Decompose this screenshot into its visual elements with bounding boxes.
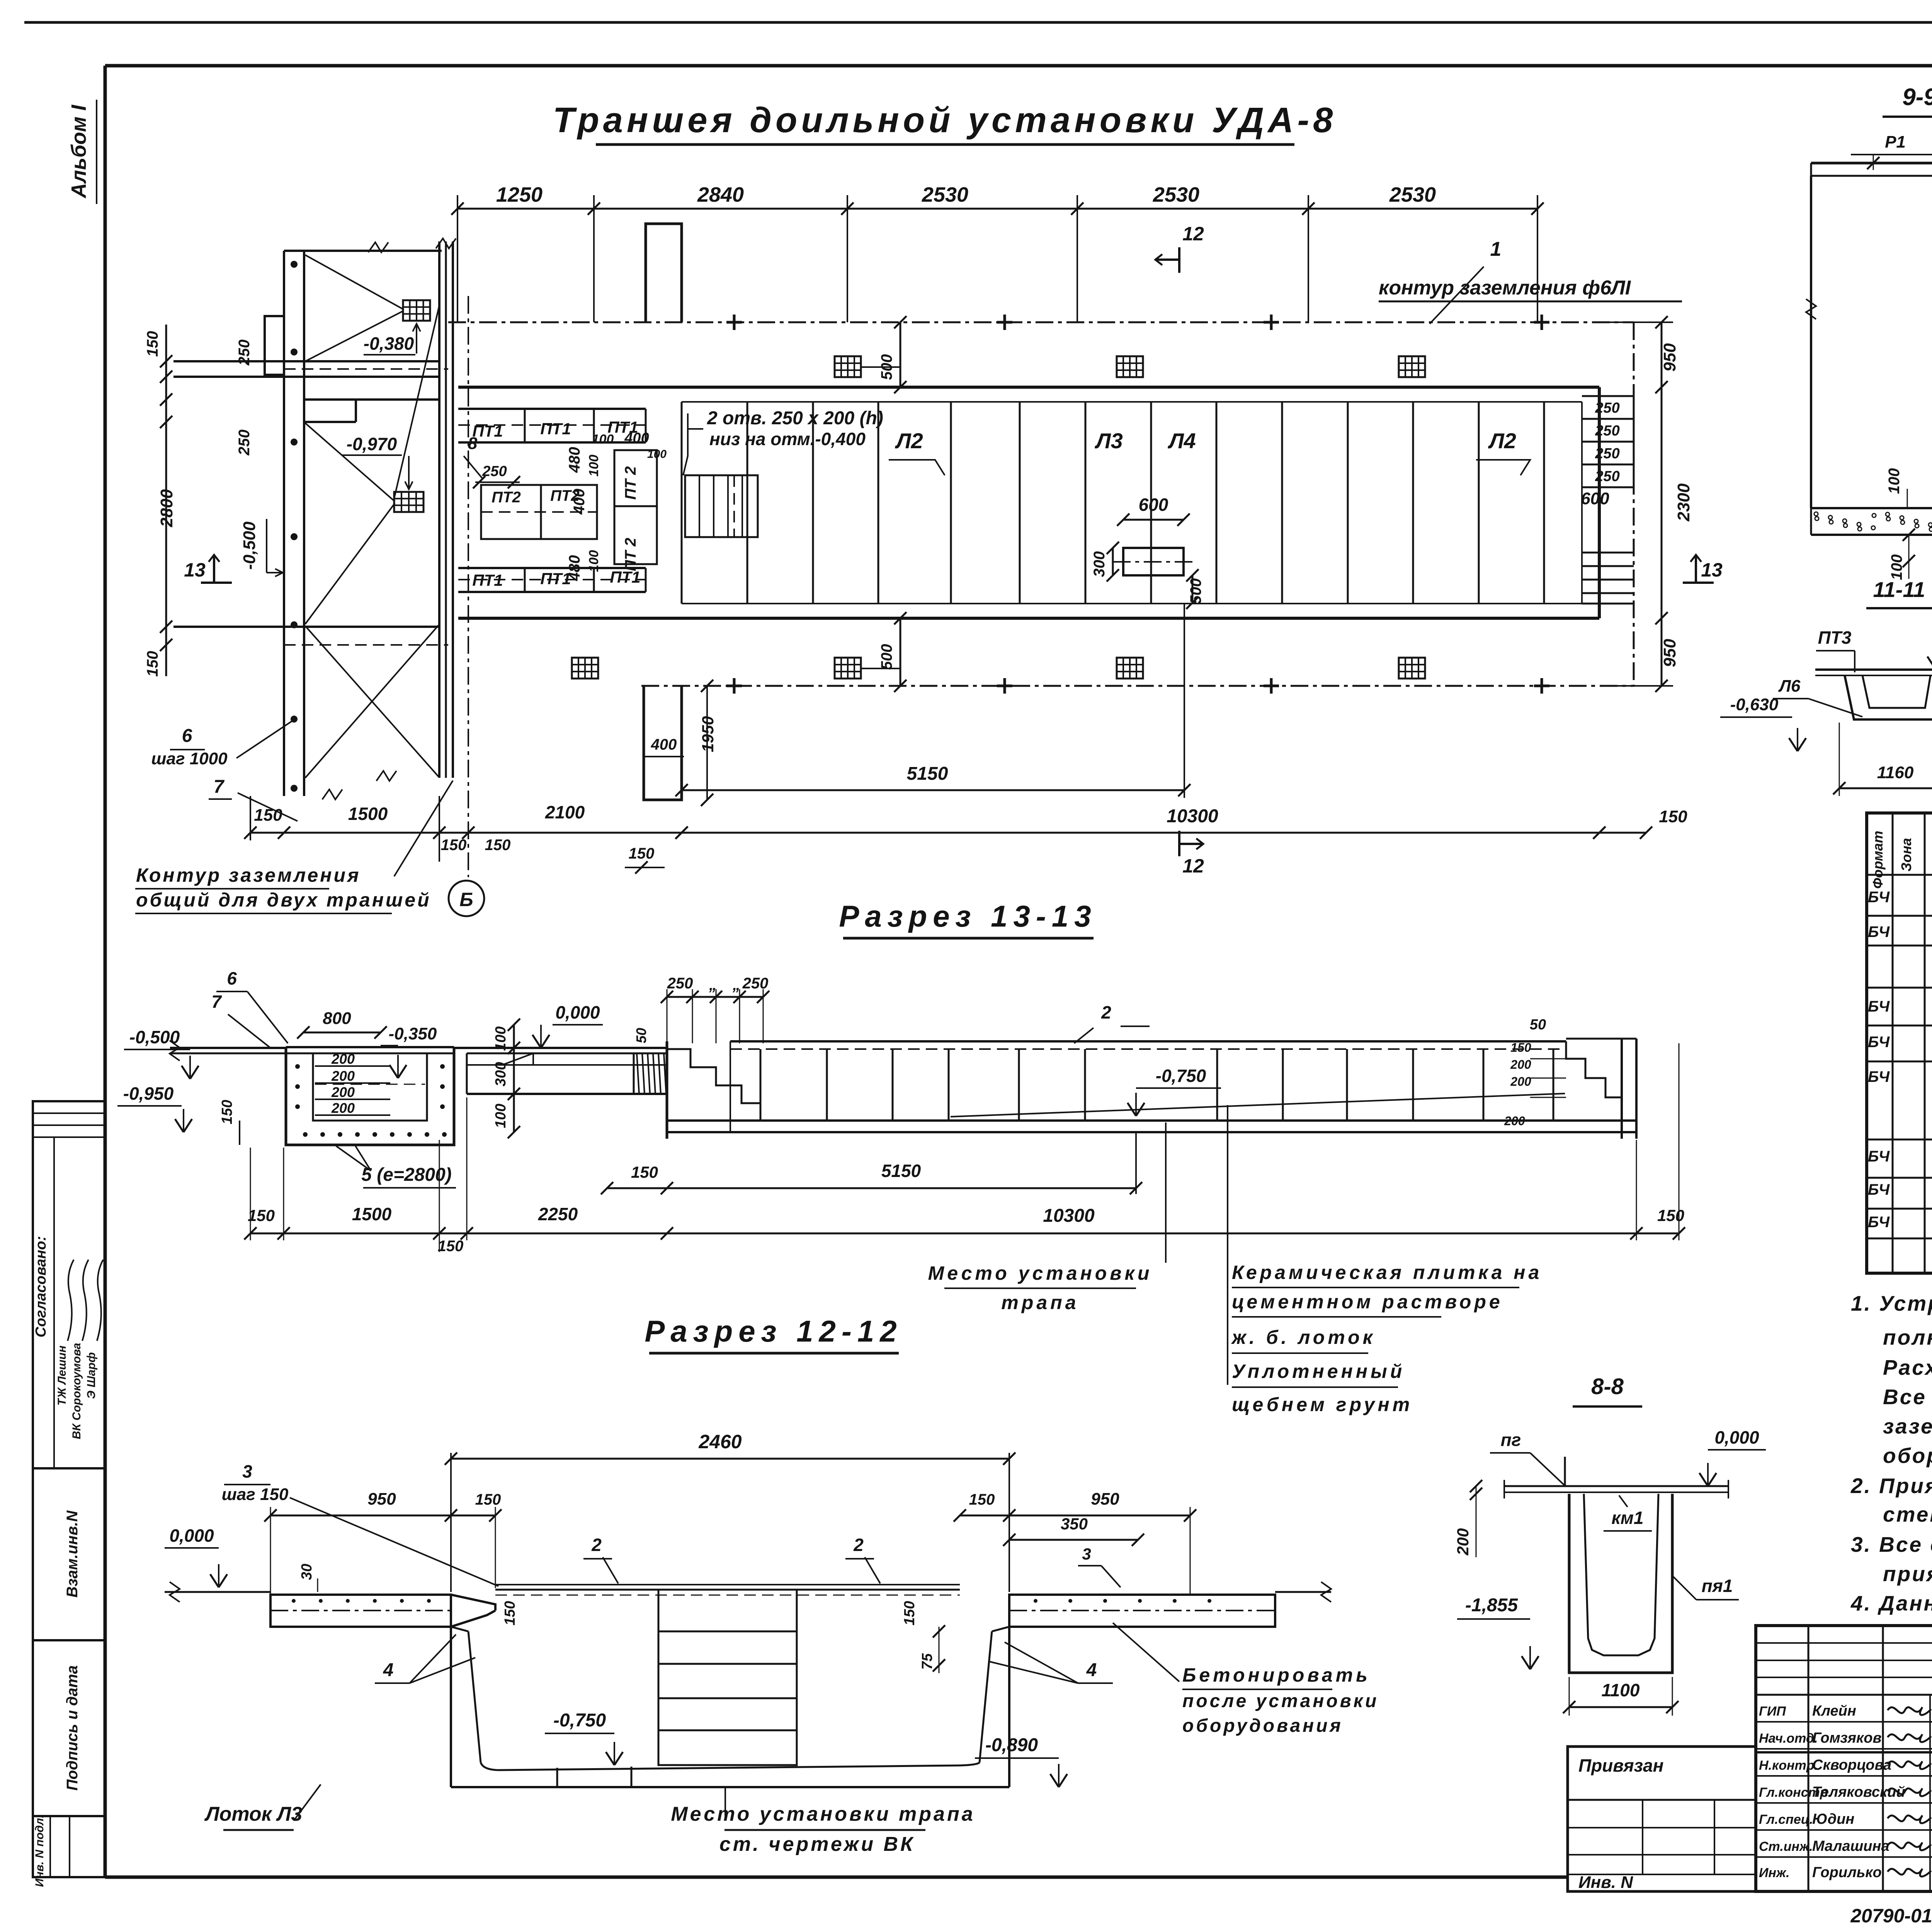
svg-text:400: 400 bbox=[624, 430, 649, 446]
svg-text:1. Устройство выравнивания эле: 1. Устройство выравнивания электрических… bbox=[1851, 1291, 1932, 1315]
svg-text:300: 300 bbox=[493, 1062, 509, 1086]
svg-text:БЧ: БЧ bbox=[1868, 1148, 1890, 1165]
svg-text:1500: 1500 bbox=[352, 1204, 392, 1224]
svg-text:75: 75 bbox=[919, 1653, 935, 1670]
outer sheet border top bbox=[24, 21, 1932, 24]
svg-text:4: 4 bbox=[383, 1660, 394, 1680]
second wall lines bbox=[438, 241, 440, 778]
spec table grid bbox=[1867, 813, 1932, 1273]
9-9 top slab bbox=[1811, 162, 1932, 165]
drawing frame bbox=[105, 64, 1932, 68]
svg-text:Формат: Формат bbox=[1870, 831, 1886, 889]
12-12 sump notch bbox=[556, 1768, 558, 1787]
svg-text:Уплотненный: Уплотненный bbox=[1232, 1361, 1405, 1382]
plan grounding contour (dash-dot) bbox=[448, 321, 1634, 323]
svg-text:150: 150 bbox=[631, 1163, 658, 1181]
svg-text:5150: 5150 bbox=[907, 764, 948, 784]
svg-text:-0,970: -0,970 bbox=[347, 434, 397, 454]
svg-text:2530: 2530 bbox=[1389, 183, 1436, 206]
wall grounding pad -0,380 bbox=[403, 300, 430, 321]
svg-text:пя1: пя1 bbox=[1702, 1576, 1733, 1596]
left dims column bbox=[165, 325, 167, 676]
ceramic tile note bbox=[1227, 1105, 1228, 1385]
svg-text:10300: 10300 bbox=[1167, 806, 1218, 827]
svg-text:-0,750: -0,750 bbox=[553, 1710, 606, 1731]
svg-text:3. Все стенки траншеи доильной: 3. Все стенки траншеи доильной установки… bbox=[1851, 1532, 1932, 1556]
svg-text:щебнем грунт: щебнем грунт bbox=[1232, 1394, 1413, 1415]
svg-text:2250: 2250 bbox=[538, 1204, 578, 1224]
13-13 right end steps bbox=[1566, 1041, 1622, 1097]
svg-text:пг: пг bbox=[1501, 1430, 1521, 1450]
svg-text:Э Шарф: Э Шарф bbox=[85, 1352, 98, 1399]
svg-text:трапа: трапа bbox=[1001, 1292, 1079, 1313]
svg-text:БЧ: БЧ bbox=[1868, 1181, 1890, 1198]
svg-text:Горилько: Горилько bbox=[1812, 1864, 1882, 1881]
svg-text:150: 150 bbox=[969, 1491, 995, 1508]
svg-text:2530: 2530 bbox=[922, 183, 968, 206]
svg-text:стен на фундаментные балки.: стен на фундаментные балки. bbox=[1883, 1502, 1932, 1526]
svg-text:Взам.инв.N: Взам.инв.N bbox=[64, 1510, 81, 1597]
12-12 left slab bbox=[270, 1595, 451, 1627]
svg-text:общий для двух траншей: общий для двух траншей bbox=[136, 889, 431, 911]
svg-text:ПТ1: ПТ1 bbox=[472, 571, 503, 589]
plan right lower stairs bbox=[1582, 552, 1634, 554]
8-8 dim 1100 bbox=[1569, 1706, 1672, 1708]
svg-text:250: 250 bbox=[1595, 400, 1619, 416]
svg-text:-0,380: -0,380 bbox=[364, 333, 414, 354]
13-13 channel trough bbox=[286, 1047, 454, 1145]
svg-text:1100: 1100 bbox=[1602, 1680, 1640, 1700]
svg-text:250: 250 bbox=[742, 975, 769, 992]
12-12 central equipment block bbox=[658, 1590, 797, 1765]
svg-text:950: 950 bbox=[1660, 343, 1679, 372]
svg-text:800: 800 bbox=[323, 1009, 351, 1028]
svg-text:200: 200 bbox=[331, 1051, 355, 1067]
svg-text:400: 400 bbox=[571, 489, 588, 515]
svg-text:Контур заземления: Контур заземления bbox=[136, 864, 361, 886]
svg-text:Все металлические конструкции: Все металлические конструкции установки … bbox=[1883, 1385, 1932, 1409]
svg-text:6: 6 bbox=[227, 968, 237, 988]
sidebar Взам.инв.N box bbox=[33, 1468, 105, 1640]
svg-text:200: 200 bbox=[331, 1084, 355, 1100]
svg-text:ПТ1: ПТ1 bbox=[540, 420, 571, 438]
svg-text:400: 400 bbox=[651, 736, 677, 753]
svg-text:2. Приямок ПЯЗ применять при в: 2. Приямок ПЯЗ применять при варианте оп… bbox=[1850, 1474, 1932, 1498]
svg-text:100: 100 bbox=[647, 448, 667, 461]
svg-text:низ на отм.-0,400: низ на отм.-0,400 bbox=[709, 429, 866, 449]
plan slab joint lines bbox=[681, 402, 683, 604]
svg-text:950: 950 bbox=[1660, 639, 1679, 667]
svg-text:2530: 2530 bbox=[1153, 183, 1199, 206]
svg-text:100: 100 bbox=[1886, 468, 1903, 494]
svg-text:250: 250 bbox=[236, 340, 253, 366]
title block привязан box bbox=[1568, 1747, 1756, 1891]
svg-text:оборудования.: оборудования. bbox=[1883, 1444, 1932, 1468]
svg-text:Согласовано:: Согласовано: bbox=[33, 1236, 49, 1337]
svg-text:Теляковский: Теляковский bbox=[1812, 1784, 1905, 1800]
svg-text:контур заземления ф6ЛI: контур заземления ф6ЛI bbox=[1379, 277, 1631, 299]
8-8 pit ПЯ1 bbox=[1569, 1494, 1672, 1673]
wall axis Б (dash-dot) and circle bbox=[468, 296, 469, 877]
12-12 dim 2460 bbox=[451, 1458, 1009, 1460]
svg-text:8-8: 8-8 bbox=[1591, 1374, 1624, 1399]
12-12 dims right bbox=[960, 1515, 1009, 1517]
12-12 pit body bbox=[450, 1627, 452, 1787]
PT2 slabs block bbox=[481, 485, 597, 539]
svg-text:Скворцова: Скворцова bbox=[1812, 1757, 1891, 1773]
svg-text:100: 100 bbox=[493, 1104, 509, 1128]
svg-text:6: 6 bbox=[182, 726, 192, 746]
svg-text:Лоток Л3: Лоток Л3 bbox=[204, 1803, 302, 1825]
svg-text:500: 500 bbox=[878, 644, 895, 670]
svg-text:Инв. N: Инв. N bbox=[1578, 1873, 1633, 1892]
svg-text:5150: 5150 bbox=[881, 1161, 921, 1181]
sidebar approval block bbox=[33, 1101, 105, 1468]
13-13 dims 100/300/100 bbox=[513, 1025, 515, 1132]
svg-text:150: 150 bbox=[248, 1206, 275, 1225]
svg-text:Инж.: Инж. bbox=[1759, 1866, 1789, 1880]
svg-text:600: 600 bbox=[1139, 495, 1168, 515]
svg-text:30: 30 bbox=[299, 1564, 315, 1580]
svg-text:350: 350 bbox=[1061, 1515, 1088, 1533]
svg-text:Траншея доильной установки: Траншея доильной установки УДА-8 bbox=[553, 100, 1337, 140]
svg-text:км1: км1 bbox=[1612, 1508, 1644, 1528]
svg-text:2: 2 bbox=[591, 1535, 602, 1555]
13-13 floor line left bbox=[170, 1047, 286, 1049]
12-12 floor left bbox=[165, 1591, 270, 1593]
svg-text:-0,950: -0,950 bbox=[123, 1083, 174, 1104]
building wall (left, double line with rebar dots) bbox=[283, 251, 285, 796]
svg-text:БЧ: БЧ bbox=[1868, 998, 1890, 1015]
svg-text:после установки: после установки bbox=[1182, 1691, 1379, 1711]
svg-text:150: 150 bbox=[901, 1601, 918, 1625]
13-13 trench steps left bbox=[667, 1049, 760, 1103]
svg-text:150: 150 bbox=[254, 806, 282, 825]
svg-text:ПТ 2: ПТ 2 bbox=[622, 538, 639, 571]
plan trench outline bbox=[458, 386, 1599, 389]
svg-text:12: 12 bbox=[1182, 855, 1204, 877]
svg-text:Место установки трапа: Место установки трапа bbox=[671, 1803, 975, 1825]
svg-text:ТЖ Лешин: ТЖ Лешин bbox=[56, 1345, 68, 1406]
13-13 dim 5150/150 bbox=[607, 1187, 1136, 1189]
svg-text:ГИП: ГИП bbox=[1759, 1704, 1786, 1719]
svg-text:приямки облицевать керамическо: приямки облицевать керамической плиткой. bbox=[1883, 1562, 1932, 1586]
svg-text:0,000: 0,000 bbox=[1714, 1427, 1759, 1447]
svg-text:13: 13 bbox=[184, 559, 206, 581]
svg-text:150: 150 bbox=[144, 331, 161, 357]
svg-text:Л2: Л2 bbox=[895, 429, 923, 453]
13-13 trench floor band bbox=[730, 1040, 1566, 1043]
svg-text:150: 150 bbox=[475, 1491, 501, 1508]
svg-text:1: 1 bbox=[1490, 238, 1502, 260]
svg-text:1500: 1500 bbox=[348, 804, 388, 824]
svg-text:Инв. N подл.: Инв. N подл. bbox=[33, 1815, 46, 1887]
svg-text:-0,500: -0,500 bbox=[129, 1027, 180, 1047]
svg-text:500: 500 bbox=[1187, 578, 1204, 604]
svg-text:150: 150 bbox=[438, 1238, 464, 1255]
12-12 right slab bbox=[1009, 1595, 1275, 1627]
svg-text:Л4: Л4 bbox=[1167, 429, 1196, 453]
svg-text:-0,890: -0,890 bbox=[985, 1735, 1038, 1755]
pad leader 500 top bbox=[861, 366, 900, 368]
sidebar Инв.N подл box bbox=[33, 1816, 105, 1877]
svg-text:БЧ: БЧ bbox=[1868, 1034, 1890, 1051]
svg-text:Гл.спец.: Гл.спец. bbox=[1759, 1812, 1813, 1827]
svg-text:250: 250 bbox=[482, 463, 507, 480]
svg-text:Клейн: Клейн bbox=[1812, 1703, 1856, 1719]
svg-text:2: 2 bbox=[1101, 1002, 1111, 1022]
svg-text:шаг 1000: шаг 1000 bbox=[151, 749, 228, 768]
13-13 floor joints bbox=[760, 1049, 762, 1121]
svg-text:2840: 2840 bbox=[697, 183, 744, 206]
svg-text:полнять на глубине 30 мм от по: полнять на глубине 30 мм от пола из арма… bbox=[1883, 1325, 1932, 1349]
PT1 slabs bottom strip bbox=[458, 567, 646, 569]
svg-text:11-11: 11-11 bbox=[1873, 577, 1925, 602]
svg-text:Н.контр.: Н.контр. bbox=[1759, 1758, 1818, 1773]
svg-text:Нач.отд.: Нач.отд. bbox=[1759, 1731, 1818, 1746]
svg-text:Юдин: Юдин bbox=[1812, 1811, 1854, 1827]
12-12 pit cover bbox=[495, 1584, 960, 1585]
svg-text:-1,855: -1,855 bbox=[1465, 1595, 1518, 1616]
svg-text:оборудования: оборудования bbox=[1182, 1716, 1343, 1736]
svg-text:Малашина: Малашина bbox=[1812, 1838, 1889, 1854]
svg-text:4: 4 bbox=[1086, 1660, 1097, 1680]
svg-text:50: 50 bbox=[633, 1028, 649, 1043]
svg-text:480: 480 bbox=[566, 555, 583, 582]
svg-text:3: 3 bbox=[1082, 1545, 1091, 1563]
svg-text:0,000: 0,000 bbox=[169, 1526, 214, 1546]
svg-text:150: 150 bbox=[485, 837, 511, 854]
svg-text:ж. б. лоток: ж. б. лоток bbox=[1231, 1327, 1376, 1348]
wall ledges bbox=[265, 316, 284, 375]
svg-text:ст. чертежи ВК: ст. чертежи ВК bbox=[719, 1833, 915, 1855]
svg-text:4. Данный лист смотреть с лист: 4. Данный лист смотреть с листом 11. bbox=[1850, 1591, 1932, 1615]
svg-text:Л6: Л6 bbox=[1778, 677, 1801, 696]
svg-text:Ст.инж.: Ст.инж. bbox=[1759, 1839, 1813, 1854]
svg-text:50: 50 bbox=[1530, 1017, 1546, 1033]
svg-text:100: 100 bbox=[587, 455, 601, 477]
svg-text:150: 150 bbox=[1659, 807, 1687, 826]
svg-text:Место установки: Место установки bbox=[928, 1262, 1153, 1284]
plan grounding pads top row bbox=[835, 356, 861, 377]
svg-text:Л2: Л2 bbox=[1488, 429, 1516, 453]
title block grid bbox=[1756, 1642, 1932, 1644]
svg-text:-0,750: -0,750 bbox=[1156, 1066, 1206, 1086]
svg-text:7: 7 bbox=[211, 992, 222, 1012]
svg-text:100: 100 bbox=[592, 432, 614, 447]
plan grounding pads bottom row bbox=[572, 658, 598, 679]
svg-text:-0,500: -0,500 bbox=[240, 521, 259, 570]
svg-text:480: 480 bbox=[566, 447, 583, 473]
wall grounding pad -0,970 bbox=[394, 492, 423, 512]
plan bottom protrusion bbox=[644, 686, 682, 800]
svg-text:БЧ: БЧ bbox=[1868, 1068, 1890, 1085]
svg-text:250: 250 bbox=[667, 975, 693, 992]
svg-text:БЧ: БЧ bbox=[1868, 889, 1890, 906]
svg-text:200: 200 bbox=[1510, 1075, 1531, 1088]
svg-text:2100: 2100 bbox=[545, 802, 585, 822]
sidebar Подпись и дата box bbox=[33, 1640, 105, 1816]
9-9 concrete floor with slope bbox=[1811, 507, 1932, 509]
svg-text:13: 13 bbox=[1701, 559, 1723, 581]
svg-text:Бетонировать: Бетонировать bbox=[1182, 1664, 1371, 1686]
svg-text:8: 8 bbox=[468, 434, 478, 453]
svg-text:200: 200 bbox=[331, 1100, 355, 1116]
svg-text:250: 250 bbox=[1595, 423, 1619, 439]
8-8 floor rails bbox=[1504, 1485, 1728, 1487]
svg-text:250: 250 bbox=[1595, 446, 1619, 462]
svg-text:1250: 1250 bbox=[496, 183, 543, 206]
svg-text:150: 150 bbox=[219, 1100, 235, 1124]
plan dim 10300 bbox=[682, 832, 1599, 834]
svg-text:10300: 10300 bbox=[1043, 1206, 1095, 1226]
svg-text:3: 3 bbox=[242, 1461, 252, 1481]
svg-text:950: 950 bbox=[367, 1490, 396, 1509]
13-13 channel rungs 200 bbox=[315, 1065, 390, 1067]
wall truss diagonals bbox=[305, 255, 403, 309]
svg-text:Зона: Зона bbox=[1898, 838, 1914, 872]
pad leader 500 bottom bbox=[861, 668, 900, 669]
title block main box bbox=[1756, 1626, 1932, 1891]
svg-text:ПТ3: ПТ3 bbox=[1818, 628, 1852, 648]
svg-text:цементном растворе: цементном растворе bbox=[1232, 1291, 1503, 1313]
svg-text:150: 150 bbox=[629, 845, 655, 862]
13-13 leader место установки трапа bbox=[1165, 1122, 1167, 1263]
svg-text:Разрез 13-13: Разрез 13-13 bbox=[839, 899, 1097, 933]
svg-text:9-9: 9-9 bbox=[1902, 84, 1932, 111]
svg-text:250: 250 bbox=[236, 430, 253, 456]
13-13 bottom dim chain bbox=[250, 1233, 1679, 1235]
svg-text:150: 150 bbox=[144, 651, 161, 677]
svg-text:Л3: Л3 bbox=[1094, 429, 1123, 453]
plan dim 5150 bbox=[682, 789, 1184, 791]
svg-text:-0,350: -0,350 bbox=[389, 1024, 437, 1043]
plan +500 offset dims bbox=[900, 322, 901, 387]
svg-text:200: 200 bbox=[331, 1068, 355, 1084]
11-11 top rails bbox=[1815, 668, 1932, 671]
svg-text:12: 12 bbox=[1182, 223, 1204, 245]
13-13 dim 800 bbox=[303, 1032, 381, 1034]
svg-text:шаг 150: шаг 150 bbox=[222, 1485, 289, 1504]
13-13 top dims 250-250 bbox=[667, 996, 763, 998]
svg-text:-0,630: -0,630 bbox=[1730, 695, 1779, 714]
svg-text:100: 100 bbox=[587, 550, 601, 572]
svg-text:200: 200 bbox=[1504, 1114, 1525, 1128]
svg-text:600: 600 bbox=[1581, 489, 1609, 508]
plan drain opening 600x300 bbox=[1123, 548, 1184, 575]
svg-text:150: 150 bbox=[502, 1601, 518, 1625]
svg-text:Альбом I: Альбом I bbox=[67, 104, 90, 199]
svg-text:2460: 2460 bbox=[698, 1431, 742, 1452]
svg-text:Привязан: Привязан bbox=[1578, 1755, 1663, 1776]
svg-text:Р1: Р1 bbox=[1885, 133, 1906, 151]
svg-text:300: 300 bbox=[1091, 551, 1108, 577]
PT1 slabs top strip bbox=[458, 408, 646, 410]
12-12 dim 950/150 left bbox=[270, 1515, 451, 1517]
plan top dimension chain 1250/2840/2530x3 bbox=[457, 208, 1537, 210]
plan bottom dim chain bbox=[250, 832, 682, 834]
svg-text:БЧ: БЧ bbox=[1868, 1214, 1890, 1231]
svg-text:200: 200 bbox=[1454, 1528, 1472, 1556]
9-9 left wall bbox=[1810, 176, 1812, 508]
svg-text:20790-01: 20790-01 bbox=[1850, 1905, 1932, 1927]
svg-text:2 отв. 250 х 200 (h): 2 отв. 250 х 200 (h) bbox=[707, 408, 883, 429]
svg-text:950: 950 bbox=[1091, 1490, 1119, 1509]
svg-text:150: 150 bbox=[1510, 1041, 1531, 1054]
svg-text:ВК Сорокоумова: ВК Сорокоумова bbox=[70, 1343, 83, 1439]
svg-text:250: 250 bbox=[1595, 468, 1619, 485]
svg-text:Подпись и дата: Подпись и дата bbox=[64, 1665, 81, 1791]
svg-text:150: 150 bbox=[1657, 1206, 1684, 1225]
svg-text:100: 100 bbox=[493, 1026, 509, 1051]
11-11 trough bbox=[1845, 675, 1932, 719]
svg-text:200: 200 bbox=[1510, 1058, 1531, 1071]
plan right step cells bbox=[1582, 395, 1634, 397]
svg-text:ПТ2: ПТ2 bbox=[492, 489, 520, 506]
svg-text:0,000: 0,000 bbox=[555, 1002, 600, 1022]
svg-text:ПТ 2: ПТ 2 bbox=[622, 466, 639, 500]
svg-text:Гомзяков: Гомзяков bbox=[1812, 1730, 1881, 1746]
11-11 dim 1160 bbox=[1839, 787, 1932, 789]
svg-text:Керамическая плитка на: Керамическая плитка на bbox=[1232, 1262, 1542, 1283]
svg-text:1160: 1160 bbox=[1877, 763, 1914, 782]
plan right side 950/2300/950 dims bbox=[1661, 322, 1663, 686]
svg-text:7: 7 bbox=[214, 777, 225, 797]
plan top protrusion bbox=[646, 224, 682, 322]
svg-text:заземлить согласно заводской и: заземлить согласно заводской инструкции … bbox=[1883, 1414, 1932, 1438]
svg-text:Разрез 12-12: Разрез 12-12 bbox=[645, 1314, 902, 1348]
plan entry stairs bbox=[685, 475, 758, 537]
svg-text:Б: Б bbox=[459, 889, 473, 910]
svg-text:2300: 2300 bbox=[1674, 483, 1693, 522]
bottom area lines bbox=[173, 626, 439, 628]
svg-text:2800: 2800 bbox=[157, 489, 176, 527]
svg-text:Расход арматуры ф 6 АI на прия: Расход арматуры ф 6 АI на приямки - 3 кг… bbox=[1883, 1355, 1932, 1379]
svg-text:5 (е=2800): 5 (е=2800) bbox=[361, 1165, 452, 1185]
svg-text:БЧ: БЧ bbox=[1868, 923, 1890, 940]
svg-text:150: 150 bbox=[441, 837, 467, 854]
svg-text:2: 2 bbox=[853, 1535, 864, 1555]
